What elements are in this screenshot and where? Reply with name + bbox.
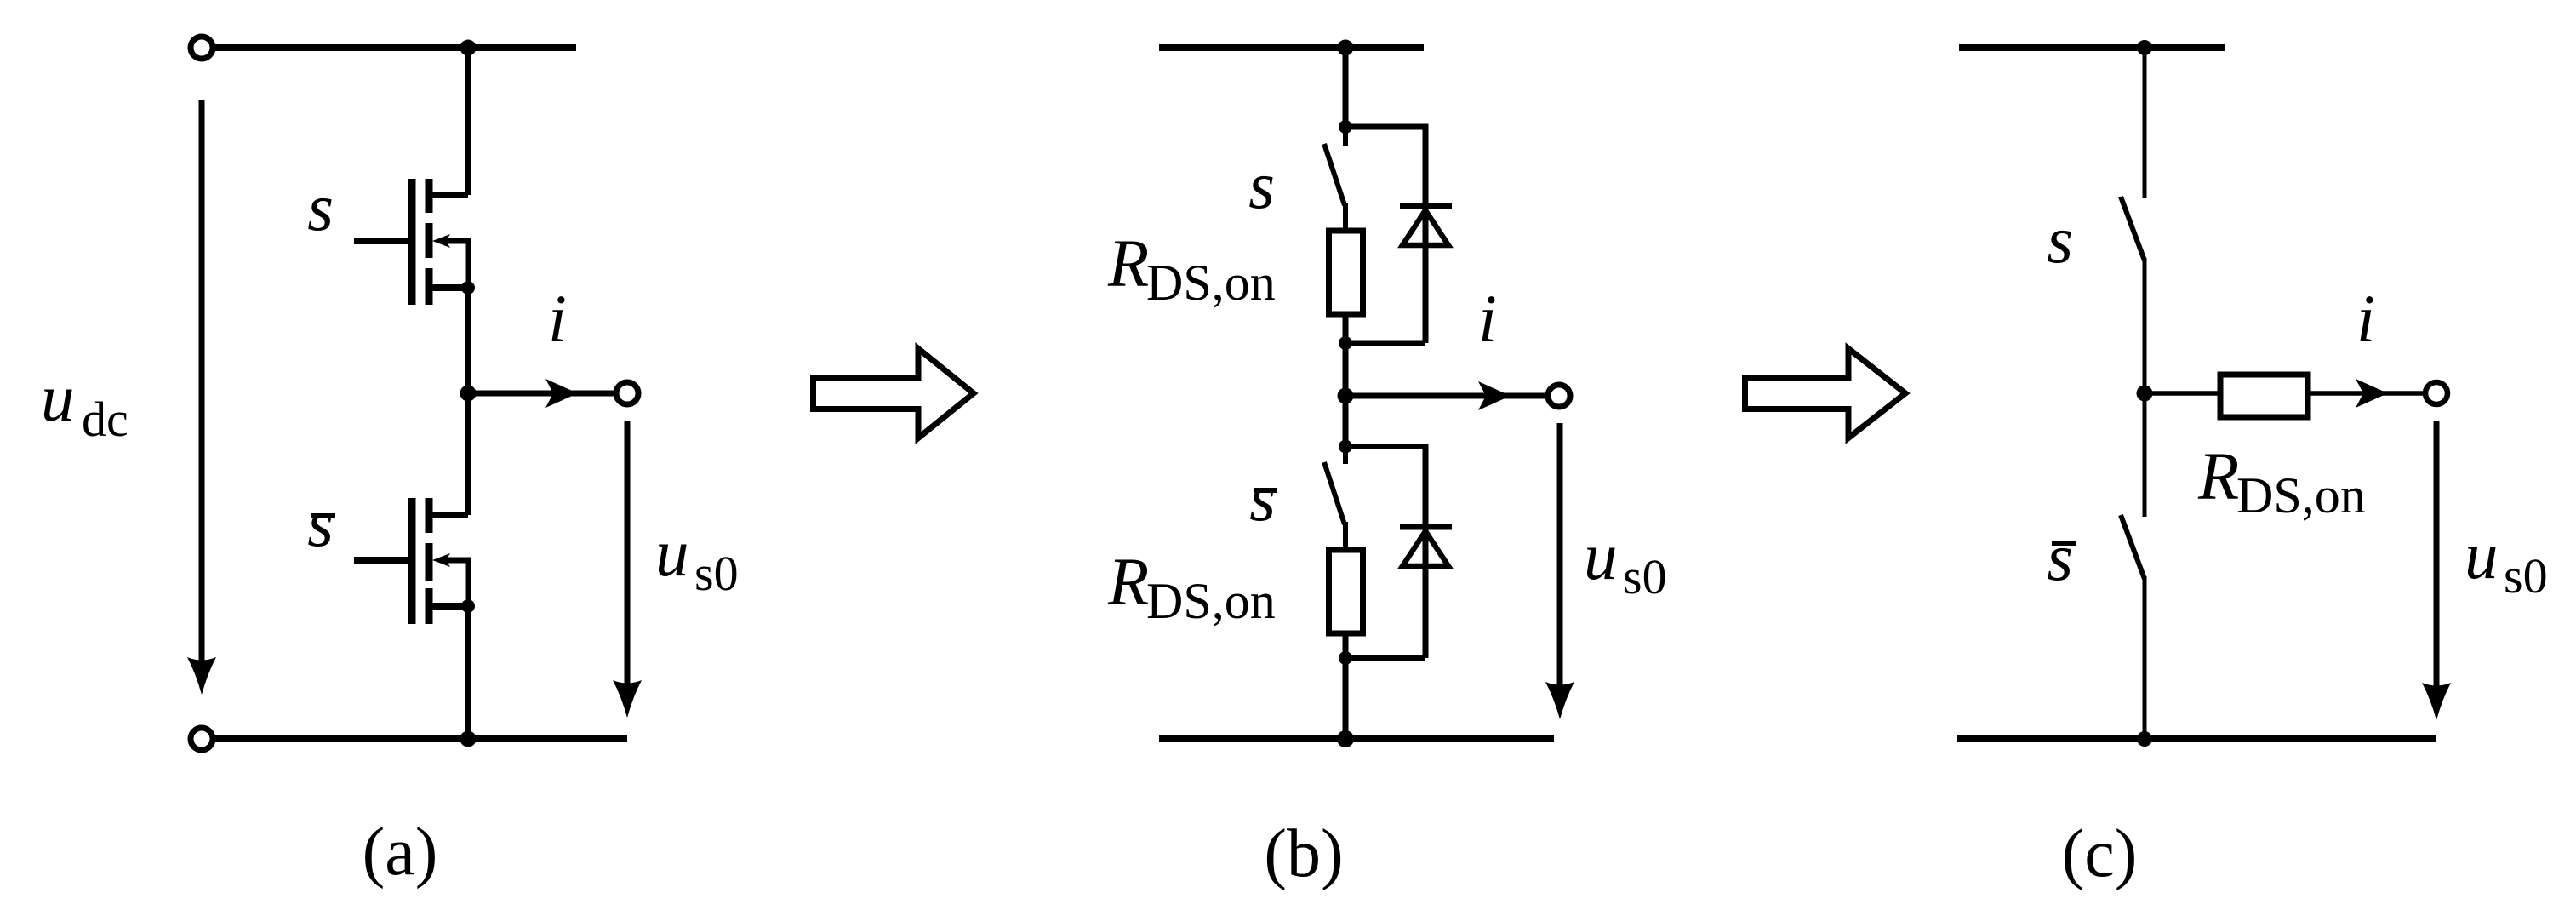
transistor Sbar channel dash 1 — [426, 498, 433, 533]
transistor S (upper MOSFET) gate bar — [408, 179, 416, 305]
svg-text:s: s — [1248, 149, 1275, 223]
voltage arrowhead u_s0 — [2422, 683, 2451, 720]
wire (switch to resistor) — [1343, 203, 1348, 231]
switch s-bar (lower) blade — [1324, 462, 1345, 524]
transistor S channel dash 1 (drain) — [426, 179, 433, 213]
block arrow (b) to (c) — [1745, 349, 1906, 438]
terminal (top-left, dc+) — [191, 37, 213, 59]
terminal (output) — [1548, 385, 1570, 407]
diode D1 triangle — [1402, 210, 1448, 245]
wire (output node to resistor) — [2145, 391, 2220, 396]
wire (gate lead of S) — [354, 238, 408, 244]
node D (lower cell bottom, junction dot) — [1339, 651, 1352, 665]
svg-text:u: u — [41, 362, 75, 436]
node 0 (output node, junction dot) — [460, 386, 477, 402]
node 0 (output node, junction dot) — [1338, 388, 1354, 404]
wire (bottom rail) — [1957, 735, 2436, 742]
wire (node B to output node) — [1343, 343, 1349, 447]
node B (upper cell bottom, junction dot) — [1339, 336, 1352, 350]
wire (source tap of Sbar) — [431, 603, 468, 610]
resistor R_DS,on (upper) body — [1329, 231, 1363, 314]
svg-text:s: s — [2047, 203, 2073, 278]
svg-text:R: R — [1107, 546, 1149, 620]
wire (resistor to node B) — [1343, 314, 1349, 343]
svg-text:s0: s0 — [694, 546, 739, 601]
switch s-bar (lower) stub — [1343, 447, 1348, 465]
transistor S channel dash 3 (source) — [426, 268, 433, 305]
current arrowhead i — [2356, 379, 2388, 408]
wire (resistor to terminal) — [2308, 391, 2425, 396]
svg-text:u: u — [655, 517, 689, 591]
svg-text:s: s — [307, 487, 334, 561]
wire (bottom rail) — [215, 735, 627, 742]
junction (top rail) — [2137, 40, 2152, 55]
wire (source tap of S) — [431, 284, 468, 291]
wire (lower diode branch, bottom) — [1345, 655, 1425, 661]
svg-text:i: i — [1478, 283, 1497, 357]
wire (top rail) — [1159, 44, 1424, 51]
svg-text:s: s — [1249, 461, 1276, 535]
svg-text:(c): (c) — [2062, 816, 2138, 891]
junction (bottom rail) — [1337, 730, 1354, 747]
terminal (bottom-left, dc-) — [191, 728, 213, 750]
switch s-bar blade — [2121, 515, 2145, 579]
wire (body tap of Sbar) — [446, 560, 468, 606]
svg-text:DS,on: DS,on — [2236, 467, 2366, 524]
current arrowhead i — [1478, 381, 1511, 410]
wire (switch to resistor, lower) — [1343, 522, 1348, 550]
wire (output lead to terminal) — [1345, 393, 1546, 399]
svg-text:u: u — [1584, 520, 1618, 594]
transistor Sbar (lower MOSFET) gate bar — [408, 498, 416, 624]
resistor R_DS,on (lower) body — [1329, 550, 1363, 633]
wire (drain tap of S) — [431, 192, 468, 198]
svg-text:s: s — [2047, 521, 2073, 595]
diode D2 cathode bar — [1400, 524, 1452, 530]
block arrow (a) to (b) — [814, 349, 974, 438]
svg-text:(b): (b) — [1264, 816, 1343, 891]
wire (drain lead of transistor S) — [465, 44, 471, 195]
terminal (output) — [2425, 382, 2447, 404]
wire (midpoint leg) — [465, 288, 471, 515]
overbar of s-bar label — [1254, 488, 1277, 493]
wire (lower resistor to node D) — [1343, 633, 1349, 658]
junction (top rail / drain of S) — [460, 40, 477, 56]
transistor S channel dash 2 (body) — [426, 223, 433, 258]
switch s blade — [2121, 197, 2145, 260]
junction (source of Sbar) — [461, 599, 475, 613]
wire (switch s to output node) — [2143, 258, 2147, 393]
voltage arrowhead u_s0 — [1545, 682, 1574, 719]
wire (output lead to terminal) — [468, 391, 614, 397]
wire (node D to bottom rail) — [1343, 658, 1349, 739]
junction (bottom rail) — [2137, 731, 2152, 747]
junction (top rail) — [1338, 40, 1354, 56]
overbar of s-bar label — [2052, 541, 2076, 546]
voltage arrow u_s0 (line) — [1557, 423, 1563, 688]
svg-text:s: s — [307, 171, 334, 245]
wire (lower diode branch, top) — [1345, 444, 1425, 449]
voltage arrowhead u_s0 — [613, 680, 642, 718]
svg-text:s0: s0 — [2504, 548, 2548, 604]
wire (lower diode branch, vertical) — [1423, 444, 1429, 658]
terminal (output) — [616, 382, 638, 404]
wire (bottom rail) — [1159, 735, 1554, 742]
svg-text:dc: dc — [82, 392, 129, 447]
transistor Sbar channel dash 3 — [426, 588, 433, 624]
svg-text:(a): (a) — [363, 815, 438, 890]
current arrowhead i — [545, 379, 578, 408]
wire (upper diode branch, vertical) — [1423, 124, 1429, 344]
svg-text:R: R — [2197, 440, 2239, 514]
node 0 (output node, junction dot) — [2137, 386, 2153, 402]
svg-text:R: R — [1107, 227, 1149, 301]
wire (top rail to switch s) — [2143, 44, 2147, 198]
wire (top rail to upper cell) — [1343, 44, 1349, 127]
diode D2 triangle — [1402, 531, 1448, 566]
svg-text:s0: s0 — [1623, 549, 1667, 604]
overbar of s-bar — [311, 513, 335, 518]
resistor R_DS,on body — [2220, 375, 2308, 417]
wire (switch s-bar to bottom rail) — [2143, 576, 2147, 739]
node A (upper cell top, junction dot) — [1339, 120, 1352, 134]
wire (top rail) — [215, 44, 576, 51]
diode D1 cathode bar — [1400, 203, 1452, 209]
voltage arrowhead u_dc — [187, 657, 216, 695]
body arrowhead of S — [432, 234, 450, 248]
switch s (upper) stub — [1343, 127, 1348, 146]
wire (body tap of S) — [446, 241, 468, 288]
transistor Sbar channel dash 2 — [426, 543, 433, 581]
svg-text:i: i — [2356, 283, 2375, 357]
junction (bottom rail) — [460, 731, 477, 747]
wire (upper diode branch, top) — [1345, 124, 1425, 130]
svg-text:DS,on: DS,on — [1146, 255, 1276, 311]
svg-text:DS,on: DS,on — [1146, 573, 1276, 629]
wire (top rail) — [1959, 44, 2225, 51]
voltage arrow u_dc (line) — [199, 100, 205, 664]
wire (gate lead of Sbar) — [354, 557, 408, 564]
wire (output node to switch s-bar) — [2143, 393, 2147, 517]
svg-text:i: i — [548, 283, 567, 357]
wire (upper diode branch, bottom) — [1345, 341, 1425, 346]
wire (source of Sbar to bottom rail) — [465, 606, 471, 739]
wire (drain tap of Sbar) — [431, 512, 468, 518]
junction (source of S) — [461, 281, 475, 295]
svg-text:u: u — [2465, 519, 2499, 593]
node C (lower cell top, junction dot) — [1339, 440, 1352, 454]
switch s (upper) blade — [1324, 144, 1345, 205]
voltage arrow u_s0 (line) — [2434, 421, 2440, 690]
voltage arrow u_s0 (line) — [625, 421, 631, 686]
body arrowhead of Sbar — [432, 553, 450, 567]
